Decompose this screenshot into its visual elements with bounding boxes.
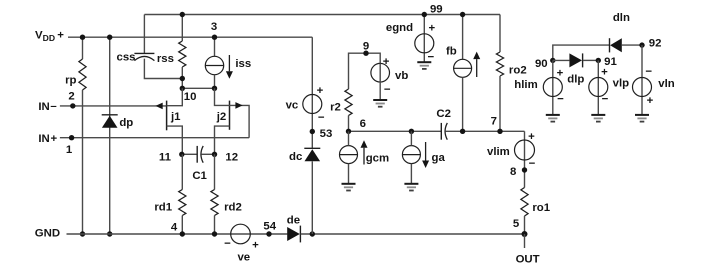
svg-text:+: +	[428, 23, 435, 35]
label 90	[535, 58, 548, 70]
label dlp	[567, 73, 584, 85]
svg-text:ro1: ro1	[532, 202, 550, 214]
label egnd minus	[427, 52, 434, 64]
node 5	[522, 231, 528, 237]
label vc	[286, 99, 299, 111]
ground egnd	[417, 62, 431, 69]
label r2	[330, 101, 341, 113]
wire ro2 bottom lead	[499, 76, 501, 131]
svg-text:+: +	[317, 85, 324, 97]
svg-text:9: 9	[363, 41, 369, 53]
label vln plus	[647, 95, 654, 107]
svg-text:dp: dp	[119, 117, 133, 129]
svg-text:+: +	[601, 67, 608, 79]
svg-text:hlim: hlim	[514, 79, 537, 91]
wire node 6-7 bus	[349, 130, 442, 132]
node 11	[179, 152, 184, 157]
svg-text:rd1: rd1	[154, 201, 172, 213]
svg-text:dln: dln	[613, 12, 630, 24]
svg-text:10: 10	[184, 91, 197, 103]
voltage source hlim	[543, 78, 562, 97]
svg-text:rp: rp	[65, 75, 76, 87]
svg-text:−: −	[318, 112, 325, 124]
wire VDD+ rail	[68, 36, 312, 38]
label rd2	[224, 202, 242, 214]
node 91	[596, 58, 601, 63]
capacitor C2	[441, 123, 447, 140]
svg-text:2: 2	[68, 90, 74, 102]
current source fb	[454, 59, 472, 77]
svg-text:5: 5	[513, 218, 520, 230]
label VDD+	[35, 30, 64, 44]
voltage source vlp	[589, 78, 608, 97]
wire GND rail	[67, 233, 288, 235]
svg-text:vlp: vlp	[613, 78, 629, 90]
svg-text:3: 3	[211, 21, 217, 33]
svg-text:−: −	[384, 84, 391, 96]
wire dc bottom lead	[311, 161, 313, 234]
svg-text:VDD+: VDD+	[35, 30, 64, 44]
label hlim	[514, 79, 537, 91]
label vlim plus	[528, 131, 535, 143]
wire C1 to node12	[201, 153, 214, 155]
voltage source vc	[303, 95, 322, 114]
svg-text:8: 8	[510, 166, 516, 178]
wire hlim top corner	[553, 45, 610, 60]
label 91	[604, 56, 617, 68]
label css	[116, 51, 135, 63]
node css-rss junction	[180, 76, 185, 81]
node 4	[180, 231, 185, 236]
svg-text:vc: vc	[286, 99, 299, 111]
node fb-7 junction	[460, 129, 465, 134]
node 2	[70, 103, 75, 108]
svg-text:dc: dc	[289, 151, 302, 163]
label 1	[66, 144, 73, 156]
wire dp vertical	[109, 37, 111, 234]
label 4	[171, 221, 178, 233]
wire rd2 top lead	[214, 154, 216, 189]
node 92	[639, 42, 644, 47]
ground hlim	[546, 115, 560, 122]
label vlim minus	[529, 158, 536, 170]
svg-text:12: 12	[225, 151, 238, 163]
label GND	[35, 227, 60, 239]
label 9	[363, 41, 369, 53]
voltage source ve	[231, 224, 251, 244]
wire IN+ line	[60, 137, 249, 139]
label de	[287, 214, 300, 226]
resistor rss	[179, 41, 186, 67]
transistor j1 channel bar	[166, 101, 168, 131]
svg-text:–: –	[50, 101, 56, 113]
resistor rp	[79, 59, 86, 90]
svg-text:11: 11	[159, 151, 172, 163]
wire rd2 bottom lead	[214, 216, 216, 235]
label hlim minus	[557, 93, 564, 105]
diode dc	[304, 148, 320, 161]
wire 90-91 left	[553, 59, 570, 61]
wire node 9 bus	[349, 53, 381, 89]
svg-text:53: 53	[320, 128, 333, 140]
diode dlp	[569, 53, 582, 67]
label vc minus	[318, 112, 325, 124]
resistor r2	[345, 89, 352, 116]
svg-text:rss: rss	[157, 53, 174, 65]
wire vlp vertical	[597, 60, 599, 115]
label vlp minus	[602, 93, 609, 105]
wire gcm top lead	[348, 131, 350, 145]
node 99 egnd junction	[422, 12, 427, 17]
svg-text:de: de	[287, 214, 300, 226]
wire rd1 top lead	[181, 154, 183, 189]
wire iss bottom lead	[214, 75, 216, 89]
voltage source vb	[371, 63, 390, 82]
arrow ga direction	[422, 142, 429, 168]
label 7	[491, 116, 497, 128]
label dln	[613, 12, 630, 24]
svg-text:vb: vb	[395, 70, 408, 82]
transistor j1 gate arrow	[155, 103, 162, 110]
node rp-gnd junction	[80, 231, 85, 236]
resistor ro2	[496, 52, 503, 76]
label fb	[446, 46, 457, 58]
wire j2 drain	[215, 88, 230, 105]
ground gcm	[342, 184, 356, 191]
label 54	[263, 221, 276, 233]
label ro2	[509, 65, 527, 77]
wire rp top lead	[82, 37, 84, 59]
label rd1	[154, 201, 172, 213]
arrow iss direction	[226, 55, 233, 79]
label 99	[430, 3, 443, 15]
label vln	[658, 78, 674, 90]
svg-text:+: +	[528, 131, 535, 143]
svg-text:IN: IN	[38, 101, 49, 113]
label ve minus	[224, 238, 231, 250]
wire node11 to C1	[182, 153, 197, 155]
label vlp plus	[601, 67, 608, 79]
svg-text:+: +	[647, 95, 654, 107]
svg-text:gcm: gcm	[366, 153, 389, 165]
transistor j2 channel bar	[229, 101, 231, 130]
svg-text:ve: ve	[237, 251, 250, 263]
svg-text:j1: j1	[170, 111, 181, 123]
wire C2 to node 7	[445, 130, 524, 132]
svg-text:+: +	[50, 133, 57, 145]
node 3	[212, 35, 217, 40]
label rp	[65, 75, 76, 87]
label 12	[225, 151, 238, 163]
label vln minus	[645, 66, 652, 78]
svg-text:fb: fb	[446, 46, 457, 58]
node ro2-7 junction	[497, 129, 502, 134]
svg-text:7: 7	[491, 116, 497, 128]
transistor j2 gate arrow	[235, 102, 242, 109]
node iss-j2 junction	[212, 86, 217, 91]
svg-text:4: 4	[171, 221, 178, 233]
label 92	[649, 37, 662, 49]
svg-text:ro2: ro2	[509, 65, 527, 77]
wire rss bottom lead	[181, 67, 183, 88]
label egnd plus	[428, 23, 435, 35]
svg-text:dlp: dlp	[567, 73, 584, 85]
node rp-vdd junction	[80, 35, 85, 40]
ground vln	[635, 115, 649, 122]
diode dp	[102, 115, 118, 128]
wire rd1 bottom lead	[181, 216, 183, 235]
svg-text:+: +	[383, 56, 390, 68]
svg-text:GND: GND	[35, 227, 60, 239]
node rss-99 junction	[180, 12, 185, 17]
node 53	[310, 129, 315, 134]
node 1	[69, 135, 74, 140]
wire fb bottom lead	[462, 77, 464, 131]
wire ro2 top lead	[499, 15, 501, 53]
svg-text:egnd: egnd	[386, 22, 413, 34]
label OUT	[516, 254, 540, 266]
resistor rd1	[179, 190, 186, 216]
label vlim	[487, 146, 510, 158]
node dp-vdd junction	[107, 35, 112, 40]
label 11	[159, 151, 172, 163]
wire rp bottom lead	[82, 90, 84, 234]
label C1	[192, 170, 207, 182]
svg-text:+: +	[252, 239, 259, 251]
label vb minus	[384, 84, 391, 96]
wire css top lead	[143, 15, 145, 54]
wire iss top lead	[214, 37, 216, 56]
node 54	[266, 231, 271, 236]
ground ga	[404, 184, 418, 191]
wire vln vertical	[641, 45, 643, 115]
node 6	[346, 129, 351, 134]
svg-text:54: 54	[263, 221, 276, 233]
svg-text:−: −	[557, 93, 564, 105]
ground vb	[373, 100, 387, 107]
svg-text:C1: C1	[192, 170, 207, 182]
svg-text:j2: j2	[216, 111, 227, 123]
wire ro1 bottom lead	[524, 216, 526, 234]
ground vlp	[591, 115, 605, 122]
svg-text:vlim: vlim	[487, 146, 510, 158]
capacitor css	[134, 53, 154, 60]
svg-text:r2: r2	[330, 101, 341, 113]
wire egnd vertical	[423, 15, 425, 63]
wire j1 drain	[167, 88, 183, 105]
diode dln	[610, 38, 622, 52]
label ga	[432, 152, 446, 164]
capacitor C1	[197, 146, 203, 163]
wire css bottom jog	[144, 59, 182, 79]
wire j2 gate lead	[230, 105, 250, 137]
node fb-99 junction	[460, 12, 465, 17]
svg-text:rd2: rd2	[224, 202, 242, 214]
voltage source vln	[633, 78, 652, 97]
label ro1	[532, 202, 550, 214]
wire node 10 bus	[182, 87, 214, 89]
svg-text:vln: vln	[658, 78, 674, 90]
svg-text:99: 99	[430, 3, 443, 15]
node 9	[363, 51, 368, 56]
svg-text:−: −	[602, 93, 609, 105]
svg-text:IN: IN	[38, 133, 49, 145]
svg-text:+: +	[557, 68, 564, 80]
node 10	[180, 86, 185, 91]
svg-text:iss: iss	[235, 58, 251, 70]
node de-dc junction	[310, 231, 315, 236]
arrow gcm direction	[361, 140, 368, 164]
label IN+	[38, 133, 57, 145]
label 3	[211, 21, 217, 33]
wire j1 source	[167, 126, 183, 154]
label vb	[395, 70, 408, 82]
diode de	[287, 226, 300, 243]
current source ga	[402, 146, 420, 164]
wire OUT stub	[524, 234, 526, 248]
label gcm	[366, 153, 389, 165]
arrow fb direction	[473, 52, 480, 77]
current source iss	[205, 56, 223, 74]
node 12	[212, 152, 217, 157]
node ga junction	[409, 129, 414, 134]
label 6	[360, 118, 366, 130]
label vc plus	[317, 85, 324, 97]
label 5	[513, 218, 520, 230]
label vlp	[613, 78, 629, 90]
wire de to out	[301, 233, 525, 235]
wire ga bottom lead	[410, 164, 412, 184]
node 90	[550, 58, 555, 63]
svg-text:css: css	[116, 51, 135, 63]
label dp	[119, 117, 133, 129]
label j1	[170, 111, 181, 123]
svg-text:ga: ga	[432, 152, 446, 164]
current source gcm	[340, 146, 358, 164]
wire r2 bottom lead	[348, 116, 350, 132]
voltage source vlim	[515, 140, 535, 160]
node 8	[522, 167, 527, 172]
label rss	[157, 53, 174, 65]
wire dlp to node 91	[583, 59, 599, 61]
label egnd	[386, 22, 413, 34]
wire gcm bottom lead	[348, 164, 350, 184]
wire IN- line	[60, 105, 167, 107]
label j2	[216, 111, 227, 123]
svg-text:90: 90	[535, 58, 548, 70]
voltage source egnd	[415, 34, 434, 53]
label ve	[237, 251, 250, 263]
wire ga top lead	[410, 131, 412, 145]
node rd2-gnd junction	[212, 231, 217, 236]
resistor rd2	[211, 190, 218, 216]
wire vc vertical	[311, 37, 313, 148]
label 2	[68, 90, 74, 102]
label IN-	[38, 101, 56, 114]
label 8	[510, 166, 516, 178]
resistor ro1	[521, 188, 528, 217]
wire fb top lead	[462, 15, 464, 60]
node dp-gnd junction	[107, 231, 112, 236]
label C2	[436, 108, 451, 120]
label iss	[235, 58, 251, 70]
wire j2 source	[215, 126, 230, 154]
svg-text:OUT: OUT	[516, 254, 540, 266]
label 53	[320, 128, 333, 140]
svg-text:C2: C2	[436, 108, 451, 120]
wire rss top lead	[181, 15, 183, 42]
wire vb through	[379, 64, 381, 101]
svg-text:6: 6	[360, 118, 366, 130]
svg-text:−: −	[645, 66, 652, 78]
svg-text:1: 1	[66, 144, 73, 156]
svg-text:−: −	[529, 158, 536, 170]
label dc	[289, 151, 302, 163]
svg-text:92: 92	[649, 37, 662, 49]
label hlim plus	[557, 68, 564, 80]
svg-text:−: −	[224, 238, 231, 250]
label vb plus	[383, 56, 390, 68]
wire hlim vertical	[552, 60, 554, 115]
wire vlim vertical	[524, 131, 526, 187]
label ve plus	[252, 239, 259, 251]
wire dln to node 92	[622, 44, 642, 46]
label 10	[184, 91, 197, 103]
wire node 99 top rail	[144, 14, 500, 16]
